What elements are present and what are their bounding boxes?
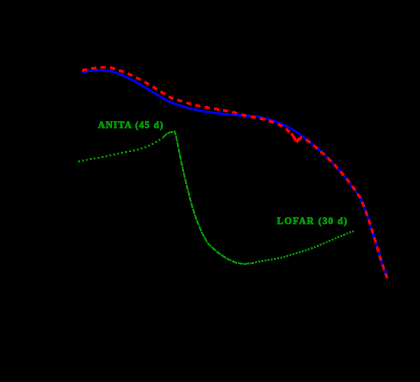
red dip glitch near x=296 [292,134,300,142]
curve: green dotted LOFAR rising part [252,231,354,263]
curve: red dashed line (model) [82,67,388,281]
curve: blue solid sensitivity line [83,70,386,275]
curve: green dotted ANITA sensitivity (left rising part) [78,138,163,162]
svg-text:LOFAR (30 d): LOFAR (30 d) [277,216,347,227]
curve: green peak and steep drop [163,131,252,264]
svg-text:ANITA (45 d): ANITA (45 d) [98,120,163,131]
